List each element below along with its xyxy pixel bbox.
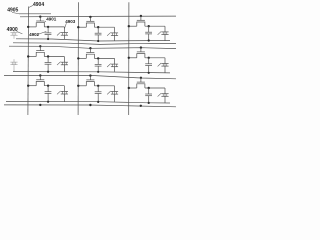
label 4902 capacitor	[29, 31, 46, 37]
wire source	[27, 26, 36, 28]
liquid crystal element 4903	[10, 30, 17, 39]
wire source	[77, 26, 86, 28]
wire source	[27, 55, 36, 57]
liquid crystal element 4903	[57, 57, 68, 72]
signal line 4904 col 2	[77, 2, 79, 115]
capacitor line row 0 (partial)	[19, 13, 51, 15]
capacitor line row 2	[13, 72, 170, 73]
transistor 4901	[86, 47, 94, 58]
node gate junction row 4 col 2	[89, 104, 91, 106]
label 4903 liquid crystal element	[64, 19, 75, 29]
scan line 4905 row 4	[4, 105, 176, 107]
wire drain	[145, 57, 165, 59]
svg-text:4904: 4904	[33, 2, 44, 8]
wire source	[128, 25, 137, 27]
liquid crystal element 4903	[57, 86, 68, 102]
transistor 4901	[86, 16, 94, 27]
wire source	[128, 87, 137, 89]
capacitor 4902	[45, 57, 52, 73]
label 4904 signal line	[29, 2, 44, 8]
wire drain	[44, 26, 64, 28]
liquid crystal element 4903	[107, 86, 118, 102]
capacitor 4902	[95, 58, 102, 73]
liquid crystal element 4903	[158, 58, 169, 73]
label 4901 transistor	[44, 17, 57, 23]
signal line 4904 col 1	[27, 7, 30, 116]
svg-text:4901: 4901	[46, 17, 57, 22]
liquid crystal element 4903	[158, 26, 169, 40]
gate-side line row 2	[13, 43, 176, 45]
capacitor 4902	[95, 27, 102, 42]
capacitor 4902	[145, 26, 152, 41]
capacitor line row 1	[16, 39, 170, 41]
signal line 4904 col 3	[128, 2, 130, 115]
liquid crystal element 4903	[158, 88, 169, 103]
scan line 4905 row 1	[20, 15, 176, 18]
transistor 4901	[86, 74, 94, 85]
label 4900 capacitor line	[7, 27, 23, 34]
capacitor 4902	[95, 86, 102, 103]
liquid crystal element 4903	[107, 27, 118, 41]
transistor 4901	[137, 15, 145, 26]
wire source	[128, 57, 137, 59]
scan line 4905 row 3	[4, 76, 176, 79]
node gate junction row 4 col 1	[39, 104, 41, 106]
wire drain	[94, 85, 114, 87]
capacitor 4902	[145, 88, 152, 104]
svg-text:4903: 4903	[65, 19, 76, 24]
wire drain	[94, 26, 114, 28]
capacitor 4902	[45, 86, 52, 103]
liquid crystal element 4903	[107, 58, 118, 71]
label 4905 scan line	[7, 7, 19, 14]
wire drain	[44, 85, 64, 87]
liquid crystal element 4903	[57, 27, 68, 39]
svg-text:4900: 4900	[7, 27, 18, 33]
transistor 4901	[36, 45, 44, 56]
capacitor 4902	[145, 58, 152, 74]
transistor 4901	[137, 46, 145, 57]
wire drain	[145, 25, 165, 27]
transistor 4901	[36, 16, 44, 27]
wire drain	[44, 55, 64, 57]
wire drain	[94, 57, 114, 59]
liquid crystal element 4903	[10, 59, 17, 71]
wire drain	[145, 87, 165, 89]
wire source	[27, 85, 36, 87]
wire source	[77, 85, 86, 87]
scan line 4905 row 2	[9, 46, 176, 48]
node gate junction row 4 col 3	[140, 105, 142, 107]
wire source	[77, 57, 86, 59]
capacitor 4902	[45, 27, 52, 40]
transistor 4901	[137, 77, 145, 88]
transistor 4901	[36, 74, 44, 85]
capacitor line row 3	[6, 102, 170, 103]
